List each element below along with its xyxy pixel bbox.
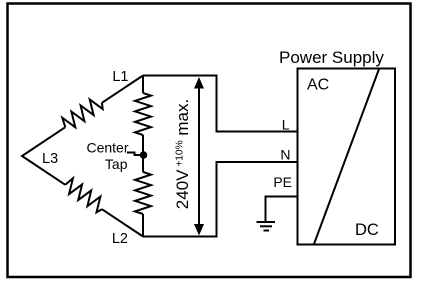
svg-text:Tap: Tap bbox=[105, 156, 128, 172]
svg-text:L: L bbox=[282, 116, 290, 132]
svg-text:240V +10% max.: 240V +10% max. bbox=[173, 99, 192, 209]
svg-text:DC: DC bbox=[355, 221, 379, 239]
svg-text:Power Supply: Power Supply bbox=[279, 48, 384, 67]
svg-text:L3: L3 bbox=[42, 151, 58, 167]
svg-text:L1: L1 bbox=[112, 69, 128, 85]
svg-text:AC: AC bbox=[307, 77, 329, 94]
svg-text:Center: Center bbox=[86, 140, 128, 156]
svg-text:PE: PE bbox=[273, 174, 292, 190]
svg-text:N: N bbox=[280, 146, 290, 162]
svg-text:L2: L2 bbox=[112, 231, 128, 247]
